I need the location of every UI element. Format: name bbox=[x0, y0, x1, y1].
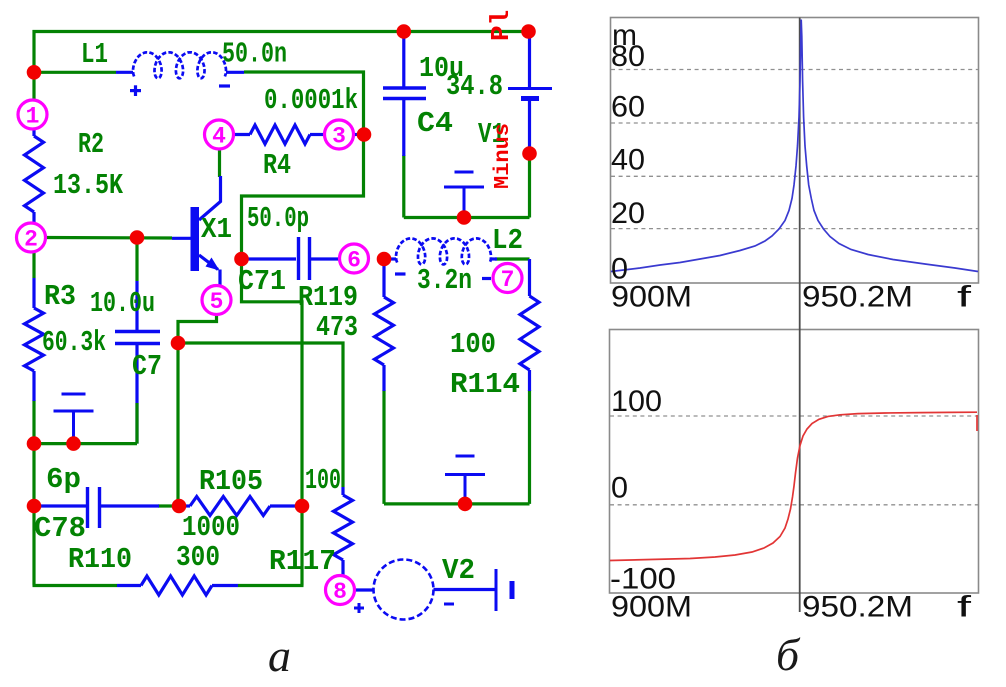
node dot junction node3 right bbox=[357, 127, 372, 142]
svg-text:R117: R117 bbox=[269, 545, 336, 578]
svg-text:300: 300 bbox=[176, 541, 220, 574]
node dot junction rail C78 bbox=[27, 499, 42, 514]
node dot junction V1 ground bbox=[457, 210, 472, 225]
wire C78 right lead to junction bbox=[158, 504, 180, 507]
node dot junction C4 top bbox=[397, 24, 412, 39]
node dot junction V1 minus bbox=[522, 146, 537, 161]
node dot junction rail bottom-left bbox=[27, 436, 42, 451]
svg-text:б: б bbox=[776, 629, 801, 680]
svg-text:1000: 1000 bbox=[182, 511, 240, 544]
wire bottom row right segment to riser bbox=[238, 584, 304, 587]
svg-text:8: 8 bbox=[333, 579, 347, 605]
battery terminal at V2 bbox=[495, 569, 498, 611]
node 1 bbox=[18, 100, 47, 130]
svg-text:3.2n: 3.2n bbox=[417, 264, 472, 297]
wire R119 bottom riser bbox=[382, 390, 385, 504]
node 2 bbox=[17, 223, 46, 253]
wire V1 loop bottom bbox=[404, 216, 530, 219]
svg-text:473: 473 bbox=[316, 311, 358, 344]
svg-text:0: 0 bbox=[611, 472, 628, 505]
svg-text:R105: R105 bbox=[199, 465, 263, 498]
svg-text:L2: L2 bbox=[492, 224, 523, 257]
wire node5 elbow to junction A bbox=[178, 315, 217, 344]
cursor vertical line bbox=[799, 18, 801, 613]
node 5 bbox=[202, 286, 231, 316]
ground in L2 loop bbox=[445, 456, 485, 504]
resistor R2 bbox=[32, 129, 35, 137]
svg-text:Pl: Pl bbox=[486, 10, 516, 41]
node 7 bbox=[493, 264, 522, 294]
svg-text:4: 4 bbox=[212, 124, 226, 150]
plot 1 gridlines bbox=[611, 69, 978, 71]
svg-text:C71: C71 bbox=[238, 265, 286, 298]
wire top horizontal rail bbox=[33, 30, 529, 33]
plot 1 frame bbox=[611, 18, 979, 284]
node dot junction V1 top bbox=[521, 24, 536, 39]
wire node 4 stem down to collector bbox=[218, 149, 221, 178]
wire left rail R3 to bottom bbox=[32, 400, 35, 507]
wire V1 loop right riser bbox=[528, 157, 531, 218]
svg-text:13.5K: 13.5K bbox=[53, 169, 123, 202]
resistor R4 bbox=[233, 133, 250, 136]
svg-text:C7: C7 bbox=[132, 350, 162, 383]
wire node 3 to elbow down-left to C71 junction bbox=[242, 140, 364, 253]
wire from junction to L1 bbox=[34, 71, 116, 74]
svg-text:50.0p: 50.0p bbox=[247, 202, 309, 235]
wire left rail node2 to R3 bbox=[32, 251, 35, 278]
wire junction A right then down to R117 bbox=[178, 343, 343, 487]
svg-text:C4: C4 bbox=[417, 107, 453, 140]
svg-text:10.0u: 10.0u bbox=[90, 287, 155, 320]
plot 2 gridlines bbox=[610, 415, 978, 417]
svg-text:R114: R114 bbox=[450, 368, 520, 401]
node dot junction node6 right bbox=[377, 252, 392, 267]
svg-text:100: 100 bbox=[450, 328, 496, 361]
svg-text:100: 100 bbox=[305, 464, 341, 497]
resistor R3 bbox=[32, 278, 35, 308]
svg-text:6p: 6p bbox=[46, 463, 81, 496]
svg-text:R110: R110 bbox=[68, 543, 132, 576]
svg-text:f: f bbox=[957, 591, 972, 624]
V2 plus mark bbox=[354, 607, 364, 610]
resistor R117 bbox=[341, 487, 344, 495]
inductor L2 bbox=[384, 257, 396, 260]
svg-text:80: 80 bbox=[611, 40, 645, 73]
ground in V1 loop bbox=[444, 172, 484, 218]
node 6 bbox=[340, 244, 369, 274]
svg-text:6: 6 bbox=[347, 248, 361, 274]
node dot junction top-left bbox=[27, 65, 42, 80]
svg-text:34.8: 34.8 bbox=[446, 70, 503, 103]
svg-text:1: 1 bbox=[26, 104, 40, 130]
svg-text:40: 40 bbox=[611, 144, 645, 177]
node dot junction C78-R105 bbox=[172, 499, 187, 514]
wire left rail to bottom wire bbox=[32, 505, 35, 586]
battery V1 bbox=[528, 32, 531, 89]
wire node 2 to base junction bbox=[45, 236, 172, 240]
svg-text:950.2M: 950.2M bbox=[802, 281, 913, 314]
wire L2 to R114 top bbox=[495, 257, 530, 260]
resistor R110 bbox=[117, 584, 141, 587]
svg-text:60: 60 bbox=[611, 91, 645, 124]
capacitor C71 bbox=[242, 257, 297, 260]
svg-text:0.0001k: 0.0001k bbox=[264, 84, 358, 117]
transistor X1 bbox=[191, 207, 200, 271]
wire node3 to junction dot bbox=[353, 133, 364, 136]
capacitor C78 bbox=[34, 504, 87, 507]
wire base junction down to C7 bbox=[135, 238, 138, 282]
wire L2 loop bottom bbox=[384, 502, 530, 505]
svg-text:X1: X1 bbox=[201, 213, 232, 246]
svg-text:7: 7 bbox=[501, 267, 515, 293]
source V2 circle bbox=[355, 588, 375, 591]
node dot junction A bbox=[171, 336, 186, 351]
node dot junction L2 ground bbox=[458, 497, 473, 512]
svg-text:Minus: Minus bbox=[492, 123, 515, 189]
svg-text:900M: 900M bbox=[611, 591, 692, 624]
plot 2 frame bbox=[610, 330, 979, 594]
node dot junction R105 right bbox=[295, 499, 310, 514]
wire junction A down to C78/R105 junction bbox=[176, 343, 179, 506]
wire bottom-left horizontal bbox=[33, 442, 138, 445]
capacitor C7 bbox=[135, 281, 138, 331]
red phase curve bbox=[610, 412, 977, 560]
svg-text:900M: 900M bbox=[611, 281, 692, 314]
node dot junction ground left bbox=[66, 436, 81, 451]
wire bottom row left segment bbox=[33, 584, 118, 587]
svg-text:V2: V2 bbox=[442, 554, 475, 587]
svg-text:100: 100 bbox=[611, 385, 662, 418]
blue magnitude curve bbox=[611, 20, 978, 272]
svg-text:C78: C78 bbox=[34, 512, 86, 545]
node dot junction base bbox=[130, 230, 145, 245]
svg-text:R2: R2 bbox=[78, 128, 104, 161]
wire C4 branch lower bbox=[402, 155, 405, 218]
wire top-left vertical rail bbox=[32, 30, 35, 101]
red curve wrap tick at right edge bbox=[976, 415, 978, 431]
V2 minus mark bbox=[444, 603, 454, 606]
svg-text:3: 3 bbox=[332, 124, 346, 150]
svg-text:L1: L1 bbox=[81, 38, 108, 71]
inductor L1 bbox=[116, 71, 133, 74]
svg-text:R4: R4 bbox=[263, 149, 291, 182]
resistor R105 bbox=[180, 504, 190, 507]
node 8 bbox=[326, 576, 355, 606]
svg-text:50.0n: 50.0n bbox=[222, 38, 287, 71]
svg-text:R3: R3 bbox=[44, 280, 76, 313]
svg-text:60.3k: 60.3k bbox=[42, 326, 106, 359]
svg-text:R119: R119 bbox=[298, 281, 358, 314]
wire R114 bottom riser bbox=[528, 390, 531, 504]
wire riser from C71 elbow down to R105 junction and bottom wire bbox=[242, 259, 303, 586]
wire L1 right to elbow down to node 3 bbox=[244, 72, 364, 129]
svg-text:2: 2 bbox=[24, 227, 38, 253]
node dot junction C71 left bbox=[234, 252, 249, 267]
svg-text:f: f bbox=[957, 281, 972, 314]
resistor R114 bbox=[528, 259, 531, 296]
wire C7 bottom to bottom-left rail bbox=[135, 344, 138, 444]
ground near C7 bbox=[54, 394, 94, 444]
svg-text:5: 5 bbox=[210, 289, 224, 315]
resistor R119 bbox=[382, 259, 385, 297]
svg-text:950.2M: 950.2M bbox=[802, 591, 913, 624]
capacitor C4 bbox=[402, 32, 405, 88]
node 4 bbox=[205, 120, 234, 150]
svg-text:а: а bbox=[268, 630, 291, 681]
svg-text:20: 20 bbox=[611, 197, 645, 230]
node 3 bbox=[325, 120, 354, 150]
